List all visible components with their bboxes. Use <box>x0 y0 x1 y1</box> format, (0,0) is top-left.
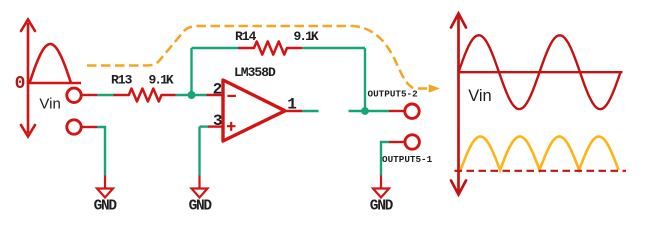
op-amp U1 triangle <box>223 80 285 141</box>
terminal circle OUTPUT5-2 <box>405 104 419 118</box>
svg-text:GND: GND <box>370 199 394 215</box>
svg-text:3: 3 <box>213 112 223 130</box>
dashed curve arrowhead <box>429 84 440 93</box>
terminal circle OUTPUT5-1 <box>405 135 419 149</box>
svg-text:LM358D: LM358D <box>234 65 276 80</box>
wire green output right piece <box>349 110 390 112</box>
wire red stub from top terminal <box>82 94 98 96</box>
input axis vertical with arrows <box>21 20 35 137</box>
wire red output stub pin1 <box>285 110 302 112</box>
wire feedback top right segment <box>302 47 365 49</box>
wire green OUTPUT5-1 to gnd corner <box>381 142 389 176</box>
wire red to OUTPUT5-2 terminal <box>389 110 405 112</box>
input axis horizontal <box>28 82 81 85</box>
resistor R14 <box>238 41 302 54</box>
wire feedback top left segment <box>192 47 239 49</box>
scope Vin sine wave <box>459 35 621 109</box>
svg-text:OUTPUT5-2: OUTPUT5-2 <box>368 89 419 100</box>
wire red pin3 stub <box>208 125 223 127</box>
wire green to R13 <box>97 94 115 96</box>
scope baseline <box>459 71 623 73</box>
scope axis vertical with arrows <box>451 14 466 195</box>
svg-text:Vin: Vin <box>468 87 492 105</box>
svg-text:R14: R14 <box>235 29 257 44</box>
wire red pin2 stub <box>207 94 224 96</box>
node junction output <box>361 107 369 115</box>
svg-text:GND: GND <box>94 199 118 215</box>
wire green R13 to opamp pin2 <box>176 94 207 96</box>
input half-sine bump <box>30 44 72 83</box>
ground GND3 <box>373 176 389 198</box>
svg-text:GND: GND <box>189 199 213 215</box>
scope dashed zero line <box>455 170 627 172</box>
svg-text:2: 2 <box>213 80 223 98</box>
resistor R13 <box>114 89 176 102</box>
wire green bottom terminal to gnd1 <box>97 127 105 176</box>
wire feedback vertical left <box>190 48 192 95</box>
wire red stub from bottom terminal <box>82 126 98 128</box>
wire green output left piece <box>302 110 319 112</box>
ground GND1 <box>97 176 113 198</box>
terminal circle Vin bottom <box>67 120 81 134</box>
svg-text:OUTPUT5-1: OUTPUT5-1 <box>382 154 433 165</box>
op-amp plus input mark <box>227 122 235 131</box>
wire green pin3 horizontal <box>200 125 209 127</box>
terminal circle Vin top <box>67 88 81 102</box>
wire red stub OUTPUT5-1 <box>389 141 405 143</box>
svg-text:Vin: Vin <box>39 96 60 113</box>
svg-text:0: 0 <box>15 74 26 94</box>
node junction feedback left <box>188 91 196 99</box>
scope rectified humps <box>461 137 619 171</box>
wire green pin3 to gnd2 <box>198 127 200 176</box>
wire feedback vertical right <box>364 48 366 111</box>
op-amp minus input mark <box>227 95 236 97</box>
ground GND2 <box>192 176 208 198</box>
svg-text:R13: R13 <box>111 73 133 88</box>
svg-text:9.1K: 9.1K <box>294 29 319 44</box>
svg-text:9.1K: 9.1K <box>149 73 174 88</box>
svg-text:1: 1 <box>287 96 297 114</box>
dashed signal flow curve <box>87 26 427 89</box>
